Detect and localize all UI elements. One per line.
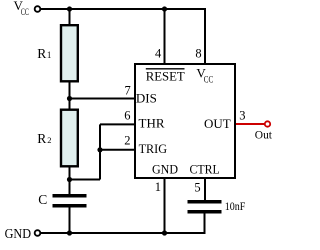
capacitor C2 top plate [188, 200, 222, 204]
terminal GND [35, 230, 41, 236]
svg-text:CTRL: CTRL [190, 162, 220, 177]
wire top rail VCC [41, 8, 206, 10]
svg-text:7: 7 [125, 84, 131, 98]
capacitor C bottom plate [53, 204, 87, 208]
terminal Out [265, 121, 270, 126]
wire C2 bottom lead [204, 214, 206, 234]
svg-text:4: 4 [155, 47, 162, 61]
junction R1 top [67, 6, 72, 11]
svg-text:6: 6 [124, 109, 130, 123]
svg-text:10nF: 10nF [225, 199, 246, 213]
wire TRIG pin2 [100, 149, 135, 151]
wire pin1 GND [164, 179, 166, 233]
svg-text:RESET: RESET [146, 68, 185, 83]
svg-text:OUT: OUT [204, 116, 231, 131]
svg-text:1: 1 [155, 180, 161, 194]
svg-text:TRIG: TRIG [139, 141, 167, 156]
wire R1 top lead [69, 9, 71, 26]
resistor R2 [61, 110, 78, 167]
wire THR pin6 [100, 123, 135, 125]
svg-text:DIS: DIS [136, 91, 157, 106]
svg-text:Out: Out [255, 128, 273, 142]
wire R2 bottom lead [69, 167, 71, 194]
svg-text:1: 1 [47, 50, 52, 60]
wire OUT pin3 [236, 123, 265, 125]
wire TRIG branch horizontal [70, 179, 101, 181]
junction TRIG [97, 147, 102, 152]
wire C bottom lead [69, 208, 71, 234]
node VCC label [14, 0, 29, 17]
svg-text:3: 3 [239, 109, 245, 123]
capacitor C top plate [53, 194, 87, 198]
svg-text:R: R [37, 46, 46, 61]
wire DIS pin7 [70, 98, 136, 100]
resistor R1 [61, 25, 78, 81]
junction R2-C [67, 177, 72, 182]
terminal VCC [35, 6, 41, 12]
wire pin8 [204, 8, 206, 63]
svg-text:GND: GND [5, 226, 32, 241]
wire R1 bottom to R2 top [69, 82, 71, 110]
wire pin4 [164, 9, 166, 63]
svg-text:GND: GND [152, 162, 178, 177]
wire THR-TRIG vertical [99, 124, 101, 179]
svg-text:5: 5 [194, 180, 200, 194]
svg-text:CC: CC [204, 75, 213, 85]
pin label VCC inside [196, 65, 213, 85]
svg-text:C: C [38, 192, 47, 207]
label R2 [37, 131, 51, 146]
wire pin5 CTRL [204, 179, 206, 200]
svg-text:8: 8 [195, 47, 201, 61]
label R1 [37, 46, 51, 61]
junction pin1-GND [162, 230, 167, 235]
svg-text:THR: THR [139, 116, 165, 131]
wire bottom rail GND [41, 232, 206, 234]
junction C-GND [67, 230, 72, 235]
junction DIS [67, 96, 72, 101]
capacitor C2 bottom plate [188, 210, 222, 214]
pin label RESET with overline [146, 68, 185, 83]
junction pin4 top [162, 6, 167, 11]
svg-text:CC: CC [21, 7, 29, 17]
svg-text:2: 2 [47, 135, 51, 145]
op-amp U1 555 timer body [135, 64, 235, 178]
svg-text:2: 2 [124, 133, 130, 147]
svg-text:R: R [37, 131, 46, 146]
